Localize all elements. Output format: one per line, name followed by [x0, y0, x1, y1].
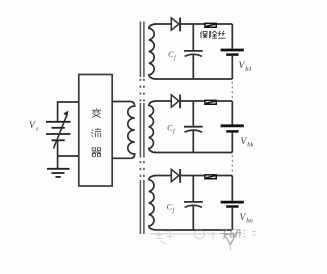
wire: top wire to diode (3): [155, 175, 171, 177]
label Cf (2): [167, 122, 176, 135]
watermark plus glyph: [209, 229, 218, 239]
char 丝: [218, 31, 225, 38]
label Cf (1): [168, 49, 177, 62]
watermark colon marks: [244, 231, 256, 237]
diode D3: [171, 169, 179, 181]
svg-text:f: f: [173, 207, 176, 214]
svg-text:bn: bn: [246, 218, 253, 225]
transformer primary winding: [128, 102, 135, 159]
right rail upper segment (2): [231, 101, 233, 125]
fuse F2: [204, 100, 217, 105]
label 变流器 (vertical): [91, 108, 101, 156]
core dotted continuation (between windings): [140, 79, 145, 177]
transformer core: [140, 22, 144, 235]
label Vbk: [241, 137, 254, 149]
label Cf (3): [167, 201, 176, 214]
wire: primary top lead: [112, 101, 130, 103]
capacitor Cf2 branch: [192, 101, 194, 126]
char 保: [200, 31, 207, 38]
diode D2: [171, 95, 179, 107]
battery Vb1: [221, 49, 244, 52]
wire: source top horizontal to converter box: [58, 101, 79, 103]
wire: bottom wire circuit 1: [155, 78, 232, 80]
variable source Vs battery plates: [46, 122, 71, 141]
label Vb1: [239, 61, 252, 73]
capacitor Cf1 branch: [192, 24, 194, 50]
wire: top wire to diode (2): [155, 100, 171, 102]
wire: top wire to diode: [155, 23, 171, 25]
battery Vbn: [221, 201, 244, 204]
char 险: [210, 31, 217, 39]
watermark: [150, 229, 256, 251]
fuse F3: [204, 174, 217, 179]
label 保险丝: [200, 31, 225, 39]
fuse F1: [204, 23, 217, 28]
capacitor Cf3 branch: [192, 176, 194, 202]
secondary winding 2: [149, 101, 156, 153]
watermark circle glyph: [195, 229, 205, 239]
char 流: [91, 128, 101, 137]
watermark tick: [161, 241, 167, 244]
watermark char 子: [219, 229, 229, 238]
watermark char 研: [230, 230, 235, 237]
ground: [47, 169, 70, 177]
label Vs: [29, 121, 39, 133]
right rail upper segment: [231, 24, 233, 49]
char 变: [92, 108, 101, 117]
wire: bottom wire circuit 3: [155, 229, 232, 231]
right rail upper segment (3): [231, 176, 233, 201]
wire: source top vertical: [57, 101, 59, 121]
svg-text:V: V: [29, 121, 36, 131]
wire: primary bottom lead: [112, 157, 130, 159]
svg-text:s: s: [36, 126, 39, 133]
watermark blob char 1: [155, 231, 163, 239]
label Vbn: [240, 213, 253, 225]
svg-text:bk: bk: [247, 142, 253, 149]
watermark down arrow: [224, 234, 235, 245]
wire: diode to right rail (2): [180, 100, 232, 102]
svg-text:b1: b1: [245, 66, 252, 73]
wire: bottom wire circuit 2: [155, 152, 232, 154]
wire: source bottom horizontal to converter box: [58, 155, 79, 157]
wire: source bottom vertical to ground: [57, 141, 59, 168]
watermark strikethrough line: [150, 233, 217, 235]
diode D1: [171, 18, 179, 30]
converter box: [79, 75, 112, 187]
char 器: [92, 148, 101, 156]
wire: diode to right rail: [180, 23, 232, 25]
watermark blob char 2: [166, 229, 174, 239]
svg-text:f: f: [174, 54, 177, 61]
battery Vbk: [221, 124, 244, 127]
dashed series link 2-3: [231, 155, 233, 174]
variable-source arrow across Vs: [54, 116, 67, 149]
wire: diode to right rail (3): [180, 175, 232, 177]
svg-text:f: f: [173, 128, 176, 135]
dashed series link 1-2: [231, 82, 233, 99]
secondary winding 3: [149, 176, 156, 231]
secondary winding 1: [149, 24, 156, 79]
